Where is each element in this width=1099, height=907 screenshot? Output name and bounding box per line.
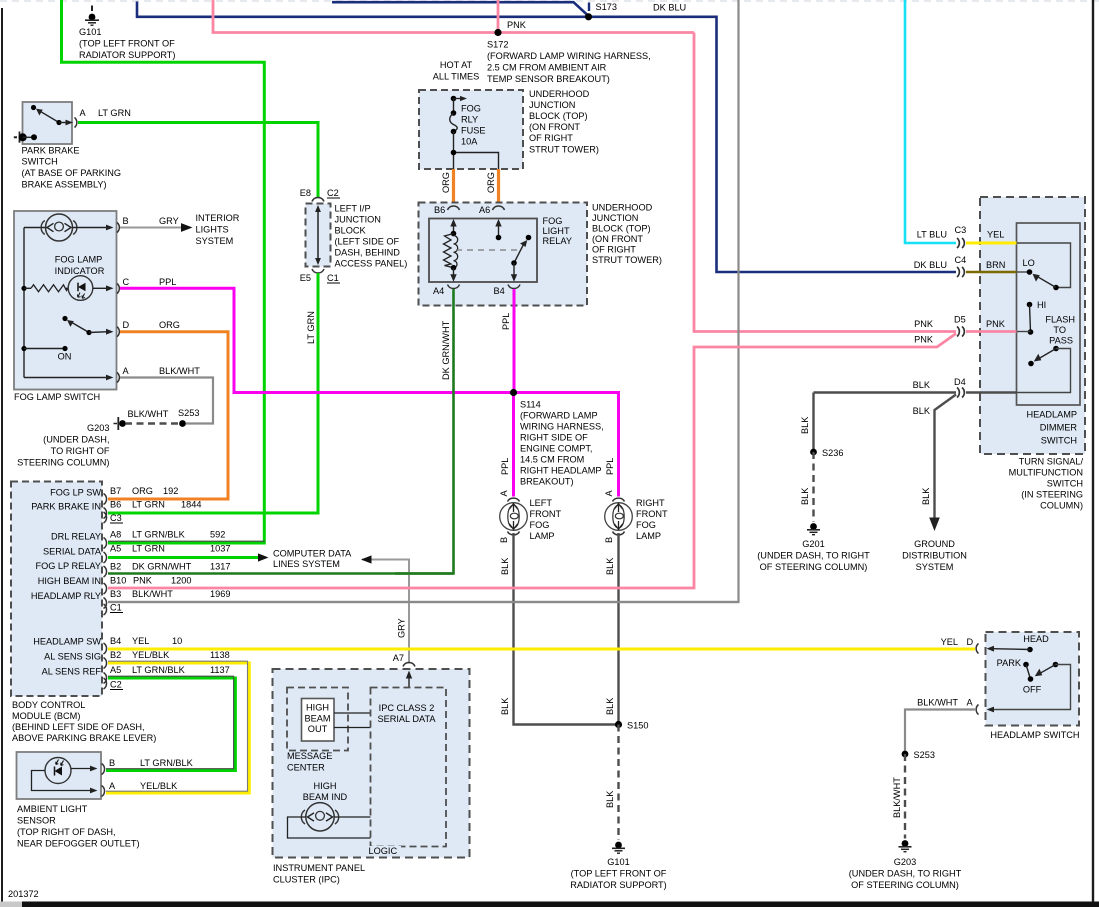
arrow into A connector	[987, 707, 995, 713]
svg-text:SWITCH: SWITCH	[1047, 479, 1083, 489]
svg-text:(LEFT SIDE OF: (LEFT SIDE OF	[335, 237, 400, 247]
wire YEL/BLK from BCM B2 to ambient light sensor A	[106, 663, 249, 793]
svg-text:BEAM IND: BEAM IND	[303, 792, 348, 802]
indicator lamp (top) in fog lamp switch	[24, 214, 114, 241]
label FOG LIGHT RELAY	[543, 216, 572, 246]
wire PPL from fog switch C to S114	[120, 288, 514, 392]
wires HIGH BEAM OUT to logic box	[334, 713, 371, 728]
connector A7 arc	[403, 663, 415, 667]
svg-text:LT GRN: LT GRN	[132, 544, 165, 554]
svg-text:G203: G203	[87, 423, 109, 433]
svg-text:1317: 1317	[210, 562, 230, 572]
pin label C3 (underlined)	[110, 513, 123, 523]
svg-text:TO: TO	[1053, 325, 1066, 335]
wire BLK right fog lamp down to S150	[617, 533, 619, 725]
bottom A row internal wire	[24, 375, 114, 381]
svg-text:ACCESS PANEL): ACCESS PANEL)	[335, 259, 408, 269]
wire ORG from fog switch D to BCM B7	[108, 332, 228, 499]
page right border	[1092, 0, 1094, 903]
svg-text:HEADLAMP: HEADLAMP	[1026, 410, 1077, 420]
svg-text:OFF: OFF	[1023, 685, 1042, 695]
svg-text:B6: B6	[110, 500, 121, 510]
svg-text:HEAD: HEAD	[1023, 634, 1049, 644]
svg-text:C3: C3	[955, 225, 967, 235]
svg-text:UNDERHOOD: UNDERHOOD	[529, 89, 590, 99]
svg-text:1969: 1969	[210, 589, 230, 599]
headlamp dimmer switch inner box	[1017, 223, 1081, 405]
fog lamp switch box	[14, 211, 117, 390]
svg-text:YEL: YEL	[987, 230, 1004, 240]
svg-text:TO RIGHT OF: TO RIGHT OF	[51, 446, 110, 456]
svg-text:PNK: PNK	[986, 319, 1006, 329]
svg-text:TEMP SENSOR BREAKOUT): TEMP SENSOR BREAKOUT)	[487, 74, 610, 84]
svg-text:1037: 1037	[210, 544, 230, 554]
svg-text:ORG: ORG	[441, 172, 451, 193]
svg-text:LT GRN/BLK: LT GRN/BLK	[132, 530, 186, 540]
label S114 (FORWARD LAMP WIRING HARNESS, RIGHT SIDE OF ENGINE COMPT, 14.5 CM FROM RIGHT HEADLAMP BREAKOUT)	[520, 400, 604, 487]
label FLASH TO PASS	[1045, 315, 1075, 346]
svg-text:(ON FRONT: (ON FRONT	[592, 234, 643, 244]
body control module (BCM) box	[11, 482, 102, 697]
wire PPL from relay B4 down to S114	[513, 289, 516, 393]
svg-text:A: A	[499, 490, 509, 497]
wire PNK D5 into switch	[966, 330, 1017, 333]
svg-text:A5: A5	[110, 544, 121, 554]
svg-text:1844: 1844	[181, 500, 201, 510]
wire LT GRN vertical from top edge down to BCM A8 row	[62, 0, 265, 543]
wires high beam indicator to logic box	[288, 817, 371, 838]
svg-text:YEL/BLK: YEL/BLK	[132, 650, 170, 660]
relay coil branch from B6	[444, 219, 458, 282]
svg-text:C: C	[123, 277, 130, 287]
svg-text:PARK BRAKE: PARK BRAKE	[22, 146, 80, 156]
headlamp switch internal rect to A	[992, 665, 1071, 710]
svg-text:B3: B3	[110, 589, 121, 599]
svg-text:PNK: PNK	[914, 319, 934, 329]
instrument panel cluster (IPC) box	[273, 669, 470, 858]
connector C4 double arc	[957, 267, 964, 277]
wire DK BLU from top edge through S173 down to C4 row	[137, 2, 956, 273]
svg-text:(ON FRONT: (ON FRONT	[529, 122, 580, 132]
pin label B10 PNK 1200	[110, 576, 191, 586]
svg-text:LIGHT: LIGHT	[543, 226, 570, 236]
svg-text:FOG LP RELAY: FOG LP RELAY	[35, 561, 101, 571]
svg-text:RIGHT SIDE OF: RIGHT SIDE OF	[520, 433, 588, 443]
wire GRY to interior lights	[120, 227, 181, 229]
turn signal / multifunction switch outer dashed box	[980, 197, 1085, 454]
pin label B2 YEL/BLK 1138	[110, 650, 230, 660]
svg-text:B: B	[109, 758, 115, 768]
svg-text:S236: S236	[822, 448, 843, 458]
svg-text:LO: LO	[1023, 258, 1035, 268]
svg-text:1138: 1138	[210, 650, 230, 660]
wire LT GRN serial data with arrow to computer data lines system	[108, 553, 269, 561]
wire BLK/WHT dashed to G203	[126, 422, 178, 424]
svg-text:C1: C1	[110, 603, 122, 613]
svg-text:E5: E5	[300, 273, 311, 283]
label UNDERHOOD JUNCTION BLOCK (TOP) (ON FRONT OF RIGHT STRUT TOWER)	[529, 89, 599, 155]
svg-text:1200: 1200	[171, 576, 191, 586]
ground G203 (left) symbol	[114, 417, 126, 430]
fuse feed node and arrow	[451, 96, 467, 102]
svg-text:FLASH: FLASH	[1045, 315, 1075, 325]
wire BLK dashed from S150 to G101	[617, 725, 619, 841]
svg-text:PPL: PPL	[500, 458, 510, 475]
svg-text:SWITCH: SWITCH	[22, 157, 58, 167]
wire GRY from computer data lines to IPC A7	[361, 555, 409, 663]
svg-text:B7: B7	[110, 486, 121, 496]
svg-text:BLK/WHT: BLK/WHT	[132, 589, 173, 599]
node S150	[615, 721, 622, 728]
svg-text:DK GRN/WHT: DK GRN/WHT	[441, 320, 451, 380]
svg-text:ORG: ORG	[159, 320, 180, 330]
label G201 (UNDER DASH, TO RIGHT OF STEERING COLUMN)	[757, 539, 870, 572]
label IPC CLASS 2 SERIAL DATA	[377, 703, 436, 724]
pin label A5 LT GRN/BLK 1137	[110, 665, 230, 675]
svg-text:C2: C2	[327, 188, 339, 198]
svg-text:YEL: YEL	[941, 637, 958, 647]
svg-text:HEADLAMP SW: HEADLAMP SW	[33, 637, 101, 647]
ambient light sensor photocell	[45, 758, 71, 784]
pin label B4 YEL 10	[110, 636, 182, 646]
svg-text:CLUSTER (IPC): CLUSTER (IPC)	[273, 875, 340, 885]
svg-text:AMBIENT LIGHT: AMBIENT LIGHT	[17, 804, 88, 814]
ON contact row	[21, 346, 71, 362]
svg-text:COMPUTER DATA: COMPUTER DATA	[273, 549, 352, 559]
wire BLK from D4 left to S236 drop	[814, 391, 957, 393]
wire DK GRN/WHT from relay A4 to BCM B2	[108, 289, 454, 574]
park brake switch box	[23, 102, 73, 144]
fuse FOG RLY FUSE 10A	[450, 99, 458, 153]
svg-text:14.5 CM FROM: 14.5 CM FROM	[520, 455, 584, 465]
svg-text:BLK/WHT: BLK/WHT	[159, 366, 200, 376]
svg-text:LAMP: LAMP	[530, 531, 555, 541]
wire stub above S173	[588, 3, 590, 12]
svg-text:BLK: BLK	[500, 697, 510, 715]
OFF contact with wiper from right	[1023, 662, 1058, 695]
park brake switch contacts	[31, 105, 73, 126]
wire BLK/WHT long vertical from top edge down to BCM B3 row	[108, 0, 739, 602]
wire LT GRN/BLK from BCM A5 to ambient light sensor B	[106, 678, 235, 771]
svg-text:FOG LAMP SWITCH: FOG LAMP SWITCH	[14, 392, 100, 402]
svg-text:BLK: BLK	[800, 416, 810, 434]
svg-text:G203: G203	[894, 857, 916, 867]
connector A4 arc	[448, 285, 460, 289]
pin C connector arc	[117, 284, 119, 294]
fog light relay inner box	[429, 219, 537, 283]
svg-text:AL SENS REF: AL SENS REF	[42, 667, 102, 677]
wire BLK/WHT dashed S253 to G203	[904, 754, 906, 839]
svg-text:MULTIFUNCTION: MULTIFUNCTION	[1009, 468, 1083, 478]
label HEADLAMP DIMMER SWITCH	[1026, 410, 1077, 446]
svg-text:OF STEERING COLUMN): OF STEERING COLUMN)	[760, 562, 868, 572]
svg-text:(IN STEERING: (IN STEERING	[1021, 490, 1083, 500]
svg-text:(UNDER DASH, TO RIGHT: (UNDER DASH, TO RIGHT	[757, 551, 870, 561]
left front fog lamp	[500, 503, 528, 531]
label HOT AT ALL TIMES	[433, 60, 479, 82]
node S173	[585, 13, 592, 20]
svg-text:G101: G101	[607, 857, 629, 867]
svg-text:BRN: BRN	[986, 260, 1005, 270]
svg-text:FOG LAMP: FOG LAMP	[55, 255, 102, 265]
wire YEL/BLK black stripe	[106, 661, 248, 791]
svg-text:S253: S253	[178, 408, 199, 418]
svg-text:PNK: PNK	[914, 335, 934, 345]
svg-text:201372: 201372	[8, 889, 39, 899]
svg-text:A: A	[109, 781, 116, 791]
wire PNK vertical down to dimmer switch D5	[694, 33, 956, 332]
svg-text:HOT AT: HOT AT	[440, 60, 473, 70]
wire BLK down to S236	[812, 393, 814, 453]
svg-text:S253: S253	[914, 750, 935, 760]
svg-text:B6: B6	[434, 205, 445, 215]
svg-text:DK BLU: DK BLU	[653, 3, 686, 13]
label BODY CONTROL MODULE (BCM) (BEHIND LEFT SIDE OF DASH, ABOVE PARKING BRAKE LEVER)	[12, 700, 156, 743]
svg-text:RADIATOR SUPPORT): RADIATOR SUPPORT)	[570, 880, 666, 890]
svg-text:A: A	[967, 698, 974, 708]
svg-text:LEFT: LEFT	[530, 498, 553, 508]
svg-text:LT GRN: LT GRN	[98, 108, 131, 118]
svg-text:INDICATOR: INDICATOR	[55, 266, 105, 276]
svg-text:OF STEERING COLUMN): OF STEERING COLUMN)	[851, 880, 959, 890]
pin A connector arc	[117, 373, 119, 383]
svg-text:BLOCK (TOP): BLOCK (TOP)	[592, 224, 651, 234]
svg-text:(UNDER DASH,: (UNDER DASH,	[43, 435, 109, 445]
arrow to interior lights system	[181, 223, 193, 232]
wire PPL from S114 to right fog lamp	[514, 393, 619, 497]
label LOGIC	[367, 846, 401, 856]
svg-text:B: B	[123, 216, 129, 226]
node S172	[494, 29, 501, 36]
wire A8 LT GRN/BLK black stripe	[108, 540, 265, 542]
label FOG RLY FUSE 10A	[461, 104, 486, 147]
connector E5/C1 arc	[312, 269, 324, 273]
svg-text:JUNCTION: JUNCTION	[529, 100, 575, 110]
svg-text:BLK: BLK	[921, 487, 931, 505]
svg-text:ORG: ORG	[486, 172, 496, 193]
park brake switch ground-side contact	[14, 132, 37, 143]
label G101 (TOP LEFT FRONT OF RADIATOR SUPPORT) bottom	[570, 857, 667, 890]
svg-text:B4: B4	[110, 636, 121, 646]
svg-text:ABOVE PARKING BRAKE LEVER): ABOVE PARKING BRAKE LEVER)	[12, 733, 156, 743]
svg-text:A: A	[604, 490, 614, 497]
BCM pin connector arcs	[104, 494, 107, 690]
svg-text:BLOCK (TOP): BLOCK (TOP)	[529, 111, 588, 121]
svg-text:B: B	[499, 537, 509, 543]
svg-text:NEAR DEFOGGER OUTLET): NEAR DEFOGGER OUTLET)	[17, 839, 140, 849]
svg-text:STRUT TOWER): STRUT TOWER)	[592, 255, 662, 265]
svg-text:(FORWARD LAMP: (FORWARD LAMP	[520, 411, 598, 421]
svg-text:B10: B10	[110, 576, 126, 586]
svg-text:RLY: RLY	[461, 115, 478, 125]
page bottom black band	[0, 902, 1099, 907]
svg-text:C3: C3	[110, 513, 122, 523]
svg-text:INSTRUMENT PANEL: INSTRUMENT PANEL	[273, 863, 365, 873]
label LEFT FRONT FOG LAMP	[530, 498, 562, 541]
svg-text:G101: G101	[79, 27, 101, 37]
svg-text:FRONT: FRONT	[530, 509, 562, 519]
svg-text:RIGHT HEADLAMP: RIGHT HEADLAMP	[520, 466, 602, 476]
svg-text:HIGH: HIGH	[314, 781, 337, 791]
svg-text:DK GRN/WHT: DK GRN/WHT	[132, 562, 192, 572]
svg-text:FOG: FOG	[543, 216, 563, 226]
svg-text:RELAY: RELAY	[543, 236, 572, 246]
svg-text:LT GRN/BLK: LT GRN/BLK	[132, 665, 186, 675]
svg-text:HIGH BEAM IN: HIGH BEAM IN	[38, 576, 101, 586]
underhood junction block (fuse) box	[419, 90, 523, 169]
page top faint dashed border	[0, 0, 1099, 2]
svg-text:S150: S150	[627, 721, 648, 731]
wire PNK from BCM B10 up to dimmer switch D5	[108, 334, 956, 589]
connector arc A left fog lamp	[508, 498, 520, 501]
svg-text:SENSOR: SENSOR	[17, 816, 56, 826]
svg-text:OF RIGHT: OF RIGHT	[592, 245, 636, 255]
pin B connector arc	[117, 223, 119, 233]
high beam indicator lamp	[301, 803, 338, 831]
wire YEL dimmer switch C3 to LO contact rect	[966, 242, 1017, 245]
ground G101 (bottom) symbol	[612, 842, 625, 854]
junction block internal wire with arrows	[315, 205, 321, 265]
svg-text:192: 192	[163, 486, 178, 496]
svg-text:S173: S173	[596, 2, 617, 12]
svg-text:FOG LP SW: FOG LP SW	[50, 488, 101, 498]
ground G203 symbol (right)	[899, 840, 912, 852]
connector arc B left fog lamp	[508, 532, 520, 535]
relay armature dashed link	[456, 249, 519, 251]
svg-text:GRY: GRY	[159, 216, 179, 226]
label MESSAGE CENTER	[287, 751, 332, 773]
svg-text:BLK: BLK	[605, 790, 615, 808]
svg-text:INTERIOR: INTERIOR	[196, 213, 240, 223]
svg-text:S172: S172	[487, 40, 508, 50]
ambient light sensor box	[17, 752, 102, 799]
connector A6 arc	[493, 206, 505, 210]
page left border	[1, 8, 3, 903]
svg-text:C1: C1	[327, 273, 339, 283]
wire LT GRN from E5 down to BCM B6 row	[108, 273, 318, 513]
svg-text:JUNCTION: JUNCTION	[592, 213, 638, 223]
wire LT BLU (cyan) from top edge down to C3	[905, 0, 956, 243]
svg-text:DASH, BEHIND: DASH, BEHIND	[335, 248, 401, 258]
svg-text:BEAM: BEAM	[304, 714, 330, 724]
svg-text:C2: C2	[110, 680, 122, 690]
wire BLK dashed S236 to G201	[812, 452, 814, 522]
label AMBIENT LIGHT SENSOR (TOP RIGHT OF DASH, NEAR DEFOGGER OUTLET)	[17, 804, 140, 849]
svg-text:(AT BASE OF PARKING: (AT BASE OF PARKING	[22, 168, 122, 178]
svg-text:PPL: PPL	[501, 313, 511, 330]
switch contact (D row)	[62, 316, 113, 335]
svg-text:LT BLU: LT BLU	[917, 230, 947, 240]
svg-text:GROUND: GROUND	[914, 539, 955, 549]
svg-text:MESSAGE: MESSAGE	[287, 751, 332, 761]
svg-text:LAMP: LAMP	[636, 531, 661, 541]
svg-text:2.5 CM FROM AMBIENT AIR: 2.5 CM FROM AMBIENT AIR	[487, 63, 607, 73]
pin label C2 (underlined)	[110, 680, 123, 690]
svg-text:BLK: BLK	[913, 380, 931, 390]
ground G201 symbol	[807, 523, 820, 535]
svg-text:YEL: YEL	[132, 636, 149, 646]
svg-text:(BEHIND LEFT SIDE OF DASH,: (BEHIND LEFT SIDE OF DASH,	[12, 722, 145, 732]
svg-text:A: A	[123, 366, 130, 376]
node S114	[510, 389, 517, 396]
svg-text:BLK: BLK	[913, 406, 931, 416]
connector D5 double arc	[957, 327, 964, 337]
ambient light sensor internal wires	[32, 766, 98, 794]
pin label C1 (underlined)	[327, 273, 340, 283]
svg-text:GRY: GRY	[397, 618, 407, 638]
connector arc A right fog lamp	[613, 498, 625, 501]
wire YEL from BCM B4 to headlamp switch D	[108, 648, 975, 651]
svg-text:OF RIGHT: OF RIGHT	[529, 133, 573, 143]
svg-text:FUSE: FUSE	[461, 126, 486, 136]
svg-text:ALL TIMES: ALL TIMES	[433, 72, 479, 82]
svg-text:PARK BRAKE IN: PARK BRAKE IN	[31, 502, 101, 512]
label G101 (TOP LEFT FRONT OF RADIATOR SUPPORT)	[79, 27, 175, 60]
wire ORG fuse to relay B6	[452, 169, 455, 203]
connector arc B right fog lamp	[613, 532, 625, 535]
svg-text:ENGINE COMPT,: ENGINE COMPT,	[520, 444, 593, 454]
BCM pin name labels	[31, 488, 102, 677]
connector C3 double arc	[957, 238, 964, 248]
label COMPUTER DATA LINES SYSTEM	[273, 549, 352, 570]
label G203 (UNDER DASH, TO RIGHT OF STEERING COLUMN)	[17, 423, 110, 468]
svg-text:(TOP LEFT FRONT OF: (TOP LEFT FRONT OF	[571, 869, 667, 879]
svg-text:(FORWARD LAMP WIRING HARNESS,: (FORWARD LAMP WIRING HARNESS,	[487, 51, 651, 61]
label RIGHT FRONT FOG LAMP	[636, 498, 668, 541]
node S253 (left)	[179, 420, 186, 427]
svg-text:FRONT: FRONT	[636, 509, 668, 519]
wire BLK D4 into switch	[966, 391, 1017, 393]
svg-text:C4: C4	[955, 255, 967, 265]
wire BLK/WHT from headlamp switch A down to S253	[905, 710, 975, 755]
svg-text:10A: 10A	[461, 137, 478, 147]
PARK contact	[997, 658, 1031, 679]
right front fog lamp	[605, 503, 633, 531]
svg-text:STEERING COLUMN): STEERING COLUMN)	[17, 458, 109, 468]
svg-text:BLK: BLK	[500, 557, 510, 575]
svg-text:BLK/WHT: BLK/WHT	[128, 409, 169, 419]
svg-text:B4: B4	[494, 286, 505, 296]
svg-text:HI: HI	[1037, 300, 1046, 310]
headlamp switch dashed box	[986, 632, 1080, 726]
HI contact and wiper	[1027, 302, 1034, 335]
logic inner dashed box	[371, 688, 447, 847]
svg-text:D5: D5	[954, 315, 966, 325]
svg-text:COLUMN): COLUMN)	[1040, 501, 1083, 511]
svg-text:(UNDER DASH, TO RIGHT: (UNDER DASH, TO RIGHT	[849, 869, 962, 879]
svg-text:D: D	[967, 637, 974, 647]
svg-text:PPL: PPL	[605, 458, 615, 475]
svg-text:A7: A7	[393, 653, 404, 663]
wire DK BLU upper branch slanting into S173	[332, 2, 588, 15]
connector E8/C2 arc	[312, 197, 324, 201]
svg-text:PASS: PASS	[1049, 336, 1073, 346]
resistor + LED indicator row	[21, 276, 113, 301]
svg-text:SYSTEM: SYSTEM	[916, 562, 954, 572]
IPC A7 entry arrow	[406, 671, 412, 688]
pin A connector arc at park brake switch	[75, 118, 77, 128]
svg-text:(TOP RIGHT OF DASH,: (TOP RIGHT OF DASH,	[17, 827, 116, 837]
connector B6 arc	[448, 206, 460, 210]
svg-text:BODY CONTROL: BODY CONTROL	[12, 700, 85, 710]
svg-text:BLK: BLK	[605, 697, 615, 715]
svg-text:LIGHTS: LIGHTS	[196, 225, 229, 235]
wire PNK drop from top edge to S172	[497, 0, 500, 33]
pin label B6 LT GRN 1844	[110, 500, 201, 510]
label INSTRUMENT PANEL CLUSTER (IPC)	[273, 863, 365, 885]
svg-text:LT GRN/BLK: LT GRN/BLK	[140, 758, 194, 768]
pin D connector arc	[117, 327, 119, 337]
